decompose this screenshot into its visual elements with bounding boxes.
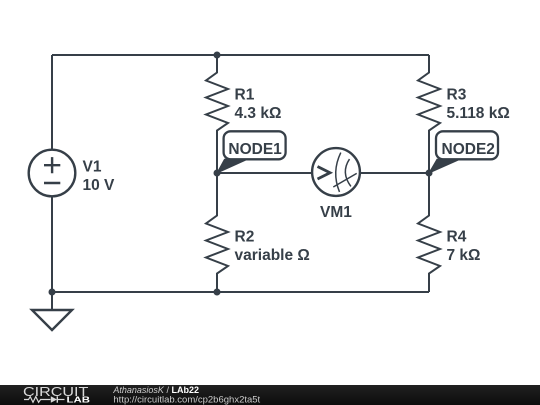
label R1 4.3 kOhm	[235, 87, 282, 122]
wire middle left (NODE1 to voltmeter)	[217, 172, 312, 174]
svg-text:VM1: VM1	[320, 204, 352, 221]
svg-text:R3: R3	[447, 87, 467, 104]
svg-text:LAB: LAB	[67, 395, 91, 404]
junction dot bottom of R2 branch	[214, 289, 221, 296]
resistor R2	[206, 173, 228, 292]
footer bar	[0, 385, 540, 405]
wire left vertical (top of V1)	[51, 55, 53, 150]
node NODE2 flag	[429, 131, 498, 173]
junction dot ground	[49, 289, 56, 296]
svg-text:5.118 kΩ: 5.118 kΩ	[447, 105, 510, 122]
voltmeter VM1	[312, 148, 360, 196]
junction node NODE1	[214, 170, 221, 177]
svg-text:R4: R4	[447, 229, 467, 246]
wire right vertical top	[428, 54, 430, 56]
footer logo diode	[51, 396, 65, 402]
svg-text:http://circuitlab.com/cp2b6ghx: http://circuitlab.com/cp2b6ghx2ta5t	[113, 394, 260, 405]
svg-text:R1: R1	[235, 87, 255, 104]
svg-text:NODE1: NODE1	[228, 141, 282, 158]
svg-text:10 V: 10 V	[83, 177, 116, 194]
svg-text:variable Ω: variable Ω	[235, 247, 310, 264]
svg-text:R2: R2	[235, 229, 255, 246]
node NODE1 flag	[217, 131, 286, 173]
resistor R1	[206, 55, 228, 173]
label R3 5.118 kOhm	[447, 87, 510, 122]
wire left vertical (bottom of V1)	[51, 196, 53, 292]
label R4 7 kOhm	[447, 229, 481, 264]
voltage source V1	[29, 150, 76, 197]
wire bottom horizontal	[52, 291, 429, 293]
svg-text:NODE2: NODE2	[442, 141, 495, 158]
resistor R3	[418, 55, 440, 173]
junction node NODE2	[426, 170, 433, 177]
label V1 10 V	[83, 159, 116, 194]
svg-text:4.3 kΩ: 4.3 kΩ	[235, 105, 282, 122]
resistor R4	[418, 173, 440, 292]
label R2 variable Ohm	[235, 229, 310, 264]
svg-text:V1: V1	[83, 159, 102, 176]
junction dot top of R1 branch	[214, 52, 221, 59]
wire middle right (voltmeter to NODE2)	[360, 172, 429, 174]
ground	[32, 292, 72, 330]
wire top horizontal	[52, 54, 429, 56]
footer logo resistor squiggle	[24, 397, 51, 403]
svg-text:7 kΩ: 7 kΩ	[447, 247, 481, 264]
